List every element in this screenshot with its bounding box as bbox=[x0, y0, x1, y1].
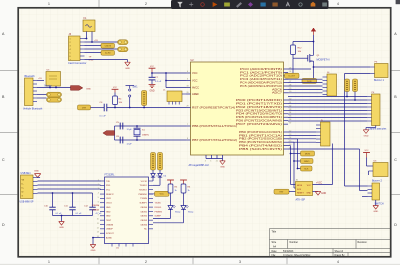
wire U5 pin1 bbox=[49, 86, 51, 88]
wire XTAL1 bbox=[120, 125, 186, 127]
capacitor C12 bbox=[84, 193, 102, 216]
port SCK bbox=[301, 166, 313, 171]
svg-text:ATmega328P-AU: ATmega328P-AU bbox=[189, 163, 209, 167]
svg-text:2: 2 bbox=[70, 42, 71, 44]
wire vcc riser bbox=[165, 73, 167, 88]
svg-text:MISO: MISO bbox=[304, 161, 310, 163]
svg-text:2: 2 bbox=[145, 260, 147, 264]
wire R12 bottom to gate bbox=[292, 55, 294, 59]
svg-text:Master: Master bbox=[45, 85, 52, 88]
testpoint TP1 bbox=[118, 40, 129, 45]
svg-text:5-MOS: 5-MOS bbox=[105, 46, 112, 48]
svg-text:5: 5 bbox=[210, 160, 211, 162]
ground (ISP) bbox=[315, 192, 321, 196]
svg-text:USB Mini: USB Mini bbox=[21, 172, 31, 175]
wire reset port to rail bbox=[143, 106, 145, 108]
svg-text:ATK-ISP: ATK-ISP bbox=[296, 199, 306, 202]
svg-text:VCCIO: VCCIO bbox=[141, 181, 148, 183]
wire card pin2 bbox=[85, 41, 118, 43]
svg-text:GND: GND bbox=[34, 171, 39, 173]
svg-text:PB1 (PCINT1/OC1A): PB1 (PCINT1/OC1A) bbox=[239, 133, 282, 137]
svg-text:TXLED#: TXLED# bbox=[139, 185, 147, 187]
svg-text:TXDEN: TXDEN bbox=[140, 198, 147, 200]
port vertical V2 bbox=[353, 79, 358, 92]
svg-text:Title: Title bbox=[272, 230, 277, 233]
port SMOKE bbox=[101, 43, 115, 48]
svg-text:Buzzer 2: Buzzer 2 bbox=[372, 180, 382, 183]
wire mcu gnd rail bbox=[206, 158, 223, 160]
svg-text:PD3 (PCINT19/OC2B/INT1): PD3 (PCINT19/OC2B/INT1) bbox=[236, 108, 282, 112]
svg-text:5: 5 bbox=[70, 52, 71, 54]
wire vcc to R4 bbox=[114, 93, 116, 97]
svg-text:4: 4 bbox=[70, 49, 71, 51]
port net1 (row1) bbox=[285, 73, 300, 78]
svg-text:AGND: AGND bbox=[106, 236, 112, 239]
svg-text:Capture para pins: Capture para pins bbox=[368, 128, 387, 131]
offsheet port GND (crystal) bbox=[103, 131, 115, 136]
svg-text:18: 18 bbox=[187, 86, 189, 88]
svg-text:GND: GND bbox=[106, 207, 111, 209]
port RX (vertical) bbox=[158, 153, 163, 171]
power VCC (buzzer2) bbox=[363, 152, 370, 154]
svg-text:PD0 (PCINT16/RXD): PD0 (PCINT16/RXD) bbox=[236, 98, 282, 102]
capacitor C11 bbox=[64, 193, 82, 216]
window corner fragment bbox=[396, 0, 400, 4]
wire riser B to ISP pin2 bbox=[294, 187, 296, 189]
svg-text:OSCO: OSCO bbox=[106, 203, 112, 205]
wire source node bbox=[313, 63, 315, 67]
svg-text:5-LED: 5-LED bbox=[105, 53, 111, 55]
svg-text:Size: Size bbox=[272, 241, 277, 244]
svg-text:ADC6: ADC6 bbox=[272, 87, 283, 91]
wire vcc to U6 bbox=[366, 158, 368, 167]
port net2 (row2) bbox=[302, 78, 317, 83]
connector P3 Buzzer 1 bbox=[370, 62, 388, 83]
ground (usb) chevron bbox=[34, 174, 40, 178]
svg-text:11: 11 bbox=[97, 223, 99, 225]
svg-text:CBUS1: CBUS1 bbox=[140, 211, 148, 213]
svg-text:5/23/2023: 5/23/2023 bbox=[283, 251, 294, 253]
wire riser2 to switch pin2 bbox=[360, 190, 368, 192]
svg-text:TXD: TXD bbox=[106, 181, 111, 183]
svg-text:OSCI: OSCI bbox=[106, 198, 111, 200]
capacitor C4 bbox=[100, 102, 107, 117]
MCU bottom gnd pins bbox=[205, 155, 223, 162]
svg-text:C: C bbox=[394, 158, 397, 162]
svg-text:4: 4 bbox=[337, 2, 339, 6]
svg-text:MOSI: MOSI bbox=[297, 185, 303, 187]
wires MCU PB to J5 bbox=[288, 132, 316, 142]
svg-text:12 pF: 12 pF bbox=[127, 129, 133, 131]
svg-text:GND: GND bbox=[220, 166, 225, 168]
svg-text:GND: GND bbox=[321, 193, 326, 195]
screenshot bottom edge bbox=[0, 263, 400, 265]
svg-text:TXLED: TXLED bbox=[155, 203, 162, 205]
svg-text:PD5 (PCINT21/OC0B/T1): PD5 (PCINT21/OC0B/T1) bbox=[236, 115, 282, 119]
connector J3 Card Connector bbox=[68, 33, 86, 65]
wire riser A bbox=[288, 145, 291, 147]
connector J2 USB bbox=[20, 172, 38, 204]
wire U6 pin2 bbox=[368, 171, 370, 175]
svg-text:+5V: +5V bbox=[38, 78, 42, 80]
connector P5 SWITCH bbox=[368, 183, 384, 206]
port DTR bbox=[78, 105, 91, 110]
FT232 right pins bbox=[138, 181, 153, 231]
fuse F1 bbox=[83, 17, 95, 31]
port RST (to ISP) bbox=[274, 189, 289, 194]
svg-text:SCK: SCK bbox=[297, 189, 302, 191]
svg-text:DTR: DTR bbox=[82, 107, 87, 109]
wire riser B bbox=[288, 141, 294, 143]
svg-text:PD7 (PCINT23/AIN1): PD7 (PCINT23/AIN1) bbox=[236, 122, 282, 126]
svg-text:GND: GND bbox=[91, 250, 96, 252]
wire AREF feed bbox=[166, 87, 186, 89]
testpoint TP2 bbox=[118, 47, 129, 52]
wire port row 1 bbox=[291, 153, 301, 155]
svg-text:0.1 uF: 0.1 uF bbox=[155, 81, 162, 83]
svg-text:1: 1 bbox=[48, 2, 50, 6]
wire vcc to MCU pin bbox=[152, 72, 186, 74]
wire usb d- bbox=[38, 180, 101, 182]
svg-text:5: 5 bbox=[98, 197, 99, 199]
svg-text:GND: GND bbox=[86, 88, 91, 90]
svg-text:PC4 (ADC4/SDA/PCINT12): PC4 (ADC4/SDA/PCINT12) bbox=[240, 81, 282, 85]
svg-text:CBUS0: CBUS0 bbox=[140, 207, 148, 209]
svg-text:1: 1 bbox=[48, 260, 50, 264]
wire bluetooth TX bbox=[37, 87, 71, 89]
svg-text:VCC: VCC bbox=[307, 185, 312, 187]
svg-text:VCC: VCC bbox=[106, 190, 111, 192]
svg-text:PD4 (PCINT20/XCK/T0): PD4 (PCINT20/XCK/T0) bbox=[236, 112, 282, 116]
svg-text:VCC: VCC bbox=[160, 194, 165, 196]
wire SW1 to rail bbox=[129, 97, 131, 108]
FT232 bottom pins bbox=[112, 244, 133, 247]
title block text bbox=[272, 230, 368, 257]
svg-text:3: 3 bbox=[205, 160, 206, 162]
power VCC (MCU) bbox=[149, 67, 156, 69]
ground (switch) bbox=[373, 206, 379, 210]
svg-text:+VCC: +VCC bbox=[316, 182, 323, 184]
svg-text:3: 3 bbox=[98, 188, 99, 190]
wire bluetooth rx bbox=[37, 94, 47, 96]
svg-text:PWREN: PWREN bbox=[155, 211, 163, 213]
svg-text:Sleep: Sleep bbox=[175, 211, 181, 213]
svg-text:Drawn By:: Drawn By: bbox=[335, 254, 346, 257]
svg-text:GND: GND bbox=[106, 211, 111, 213]
svg-text:Revision: Revision bbox=[358, 241, 368, 244]
svg-text:9: 9 bbox=[98, 214, 99, 216]
wire RST port to ISP bbox=[289, 191, 296, 193]
wire vcc riser (isp) bbox=[332, 144, 334, 185]
wires MCU PD to capture connector bbox=[288, 97, 367, 122]
svg-text:PB6 (PCINT6/XTAL1/TOSC1): PB6 (PCINT6/XTAL1/TOSC1) bbox=[192, 124, 237, 128]
wire capture gnd bbox=[375, 126, 377, 128]
wire switch gnd bbox=[375, 200, 377, 206]
testpoint pair 2 (bluetooth) bbox=[47, 97, 62, 102]
svg-text:RST (PC6/RESET/PCINT14): RST (PC6/RESET/PCINT14) bbox=[192, 105, 235, 109]
capacitor C5 bbox=[116, 122, 123, 129]
connector J1 Vehicle Bluetooth bbox=[23, 75, 43, 111]
wire F1 pin2 bbox=[91, 32, 93, 43]
svg-text:Vehicle Bluetooth: Vehicle Bluetooth bbox=[23, 107, 43, 110]
wire led1 to ft232 bbox=[170, 210, 172, 219]
wire R4 to rail bbox=[114, 105, 116, 108]
wire port row 3 bbox=[298, 168, 301, 170]
title block bbox=[270, 229, 391, 257]
wire F1 pin1 bbox=[86, 32, 88, 40]
wire cap gnd rail bbox=[115, 125, 121, 127]
module U5 (bluetooth aux) bbox=[46, 70, 61, 86]
wire V1 stem bbox=[346, 92, 348, 97]
wire V2 stem bbox=[354, 92, 356, 101]
port vertical V1 bbox=[345, 79, 350, 92]
svg-text:29: 29 bbox=[187, 106, 189, 108]
svg-text:PC3 (ADC3/PCINT11): PC3 (ADC3/PCINT11) bbox=[240, 77, 282, 81]
MCU right pins PD group bbox=[236, 98, 291, 126]
connector J5 bbox=[316, 120, 330, 146]
svg-text:13: 13 bbox=[97, 232, 99, 234]
wire PC0 stub bbox=[288, 68, 311, 70]
svg-text:VCC: VCC bbox=[192, 78, 198, 82]
svg-text:RXLED#: RXLED# bbox=[139, 190, 148, 192]
wire card pin1 to F1 bbox=[85, 38, 87, 40]
net labels right of FT232 bbox=[155, 203, 163, 218]
svg-text:37: 37 bbox=[289, 123, 291, 125]
svg-text:GND: GND bbox=[59, 227, 64, 229]
wire gate drop bbox=[292, 58, 294, 73]
net label +5V (bluetooth) bbox=[37, 80, 44, 82]
svg-text:PB2 (PCINT2/SS/OC1B): PB2 (PCINT2/SS/OC1B) bbox=[239, 137, 282, 141]
wire card pin7 to gnd bbox=[85, 59, 128, 61]
wire usb id bbox=[38, 188, 101, 190]
svg-text:4: 4 bbox=[337, 260, 339, 264]
wire riser A to ISP pin1 bbox=[291, 184, 296, 186]
connector J6 ATK-ISP bbox=[296, 179, 313, 201]
svg-text:D-OUT: D-OUT bbox=[289, 76, 296, 78]
svg-text:Sheet of: Sheet of bbox=[335, 250, 344, 253]
svg-text:7: 7 bbox=[187, 124, 188, 126]
svg-text:4: 4 bbox=[98, 193, 99, 195]
port MISO bbox=[301, 159, 314, 164]
module U6 Buzzer 2 bbox=[369, 161, 389, 183]
power VCC (led2) bbox=[180, 179, 187, 181]
wire ISP gnd stub bbox=[313, 191, 319, 193]
ground (capture) bbox=[363, 130, 369, 134]
transistor Q1 MOSFET-N bbox=[308, 54, 330, 64]
svg-text:ADC7: ADC7 bbox=[272, 91, 283, 95]
svg-text:3V3OUT: 3V3OUT bbox=[106, 233, 115, 235]
svg-text:20: 20 bbox=[187, 92, 189, 94]
svg-text:RESET#: RESET# bbox=[106, 194, 115, 196]
svg-text:6: 6 bbox=[70, 56, 71, 58]
wire U5 pin2 bbox=[55, 86, 57, 88]
svg-text:Sleep: Sleep bbox=[188, 211, 194, 213]
wire bluetooth pin5 bbox=[37, 97, 47, 99]
svg-text:VCC: VCC bbox=[113, 87, 118, 89]
resistor R4 bbox=[113, 96, 123, 105]
svg-text:GND: GND bbox=[373, 211, 378, 213]
svg-text:GND: GND bbox=[89, 60, 94, 62]
wire AVCC feed bbox=[166, 80, 186, 82]
svg-text:6: 6 bbox=[187, 79, 188, 81]
svg-text:1: 1 bbox=[98, 180, 99, 182]
svg-text:Card Connector: Card Connector bbox=[68, 61, 86, 65]
svg-text:Number: Number bbox=[290, 241, 299, 244]
port VCC (ft232 right) bbox=[155, 191, 170, 196]
wire cap bottom rail bbox=[53, 215, 93, 217]
MCU right pins PC group bbox=[240, 67, 291, 95]
svg-text:0.1 uF: 0.1 uF bbox=[76, 213, 83, 215]
svg-text:C: C bbox=[2, 158, 5, 162]
wire led2 to ft232 bbox=[183, 210, 185, 223]
port LED1 bbox=[101, 50, 115, 55]
connector J4 bbox=[323, 72, 337, 96]
svg-text:Buzzer 1: Buzzer 1 bbox=[374, 79, 384, 82]
wire ISP vcc bbox=[313, 184, 333, 186]
wire gnd drop bbox=[61, 216, 63, 222]
svg-text:4: 4 bbox=[187, 71, 188, 73]
svg-text:2: 2 bbox=[98, 184, 99, 186]
port TX (vertical) bbox=[151, 153, 156, 171]
svg-text:0.1 uF: 0.1 uF bbox=[100, 115, 107, 117]
svg-text:PB7 (PCINT7/XTAL2/TOSC2): PB7 (PCINT7/XTAL2/TOSC2) bbox=[192, 138, 237, 142]
svg-text:PB4 (PCINT4/MISO): PB4 (PCINT4/MISO) bbox=[239, 144, 282, 148]
application toolbar bbox=[171, 0, 329, 9]
wire riser to switch pin1 bbox=[345, 185, 368, 187]
wire ft232 gnd bbox=[93, 237, 100, 239]
svg-text:GND: GND bbox=[364, 135, 369, 137]
crystal Y1 bbox=[134, 125, 149, 141]
connector P4 capture bbox=[367, 92, 387, 131]
svg-text:PB3 (PCINT3/OC2A/MOSI): PB3 (PCINT3/OC2A/MOSI) bbox=[239, 140, 282, 144]
wire card pin3 bbox=[85, 45, 102, 47]
svg-text:CBUS4: CBUS4 bbox=[140, 224, 148, 226]
svg-text:MOSFET-N: MOSFET-N bbox=[317, 59, 330, 62]
svg-text:2: 2 bbox=[145, 2, 147, 6]
wire usb gnd stub bbox=[38, 177, 41, 179]
svg-text:7: 7 bbox=[70, 59, 71, 61]
wire R12 top bbox=[293, 41, 314, 43]
svg-text:USBDM: USBDM bbox=[92, 205, 100, 207]
power VCC (mosfet) bbox=[311, 28, 316, 31]
svg-text:USBDP: USBDP bbox=[106, 229, 114, 231]
svg-text:RXLED: RXLED bbox=[155, 207, 162, 209]
svg-text:PC0 (ADC0/PCINT8): PC0 (ADC0/PCINT8) bbox=[240, 67, 282, 71]
svg-text:AVCC: AVCC bbox=[192, 85, 199, 89]
svg-text:CBUS2: CBUS2 bbox=[140, 216, 148, 218]
offsheet port GND arrow bbox=[71, 86, 83, 91]
wire card pin5 bbox=[85, 52, 102, 54]
wire DTR to C4 bbox=[91, 107, 105, 109]
svg-text:3: 3 bbox=[70, 45, 71, 47]
svg-text:TEST: TEST bbox=[106, 220, 112, 222]
svg-text:12 pF: 12 pF bbox=[127, 144, 133, 146]
ground (caps) bbox=[59, 222, 65, 226]
svg-text:C:\Users\..\Sheet1.SchDoc: C:\Users\..\Sheet1.SchDoc bbox=[283, 254, 311, 257]
ground (ft232) bbox=[90, 245, 96, 249]
wire to port vcc bbox=[149, 193, 155, 195]
wire riser C bbox=[288, 138, 298, 140]
wire usb vbus rail bbox=[38, 192, 93, 194]
svg-text:10: 10 bbox=[97, 219, 99, 221]
capacitor C8 bbox=[116, 136, 123, 143]
svg-text:VCC: VCC bbox=[192, 71, 198, 75]
svg-text:4.7 uF: 4.7 uF bbox=[96, 213, 103, 215]
svg-text:VCC: VCC bbox=[150, 66, 155, 68]
diode D4 bbox=[153, 170, 167, 185]
svg-text:D: D bbox=[394, 223, 397, 227]
wire buzzer pin2 long drop bbox=[345, 73, 371, 75]
svg-text:SW1: SW1 bbox=[133, 86, 139, 88]
svg-text:PC5 (ADC5/SCL/PCINT13): PC5 (ADC5/SCL/PCINT13) bbox=[240, 84, 282, 88]
svg-text:SLEEP#: SLEEP# bbox=[139, 203, 147, 205]
wire vcc to drain bbox=[313, 35, 315, 54]
wire RESET rail bbox=[107, 107, 186, 109]
capacitor C10 bbox=[44, 193, 62, 216]
svg-text:1: 1 bbox=[70, 38, 71, 40]
wire usb d+ bbox=[38, 184, 101, 186]
svg-text:MOSI: MOSI bbox=[305, 153, 311, 155]
testpoint pair 1 (bluetooth) bbox=[47, 92, 62, 97]
FT232 left pins bbox=[97, 180, 115, 240]
svg-text:GND: GND bbox=[125, 68, 130, 70]
svg-text:3: 3 bbox=[239, 260, 241, 264]
svg-text:SLEEP: SLEEP bbox=[155, 216, 162, 218]
svg-text:12: 12 bbox=[97, 227, 99, 229]
wire port row 2 bbox=[294, 160, 301, 162]
svg-text:PWREN#: PWREN# bbox=[138, 194, 147, 196]
wires MCU to J4 bbox=[288, 79, 323, 93]
svg-text:VCC: VCC bbox=[365, 150, 370, 152]
svg-text:Bluetooth: Bluetooth bbox=[25, 75, 36, 78]
svg-text:21: 21 bbox=[216, 160, 218, 162]
svg-text:PC2 (ADC2/PCINT10): PC2 (ADC2/PCINT10) bbox=[240, 74, 282, 78]
svg-text:GND: GND bbox=[307, 192, 312, 194]
MCU right pins PB group bbox=[239, 130, 291, 151]
op-amp U1 FT232RL bbox=[105, 174, 149, 250]
switch SW1 bbox=[126, 86, 139, 98]
svg-text:USB-MINI-5P: USB-MINI-5P bbox=[20, 202, 34, 204]
svg-text:PD1 (PCINT17/TXD): PD1 (PCINT17/TXD) bbox=[236, 101, 282, 105]
svg-text:CBUS3: CBUS3 bbox=[140, 220, 148, 222]
svg-text:SCK: SCK bbox=[304, 168, 309, 170]
svg-text:D: D bbox=[2, 223, 5, 227]
svg-text:PC1 (ADC1/PCINT9): PC1 (ADC1/PCINT9) bbox=[240, 70, 282, 74]
wire to buzzer1 bbox=[314, 66, 371, 68]
svg-text:AREF: AREF bbox=[192, 92, 199, 96]
wire source drop to port bbox=[313, 67, 315, 79]
svg-text:USBDM: USBDM bbox=[106, 224, 114, 226]
svg-text:GND: GND bbox=[106, 216, 111, 218]
svg-text:File:: File: bbox=[272, 255, 277, 257]
svg-text:PD6 (PCINT22/OC0A/AIN0): PD6 (PCINT22/OC0A/AIN0) bbox=[236, 119, 282, 123]
resistor R12 bbox=[291, 45, 303, 55]
port MOSI bbox=[301, 151, 315, 156]
power VCC (R4) bbox=[112, 88, 119, 90]
svg-text:6: 6 bbox=[98, 201, 99, 203]
MCU left pins bbox=[186, 71, 237, 142]
power ground (C7) bbox=[149, 84, 156, 92]
svg-text:RESET: RESET bbox=[297, 192, 304, 194]
filter module L1 bbox=[163, 89, 186, 104]
svg-text:Date:: Date: bbox=[272, 250, 278, 253]
svg-text:PD2 (PCINT18/INT0): PD2 (PCINT18/INT0) bbox=[236, 105, 282, 109]
power VCC (led1) bbox=[167, 179, 174, 181]
wire XTAL2 bbox=[120, 139, 186, 141]
wire card pin4 bbox=[85, 48, 118, 50]
svg-text:PB5 (SCK/PCINT5): PB5 (SCK/PCINT5) bbox=[239, 147, 282, 151]
ground (MCU) bbox=[220, 161, 226, 165]
